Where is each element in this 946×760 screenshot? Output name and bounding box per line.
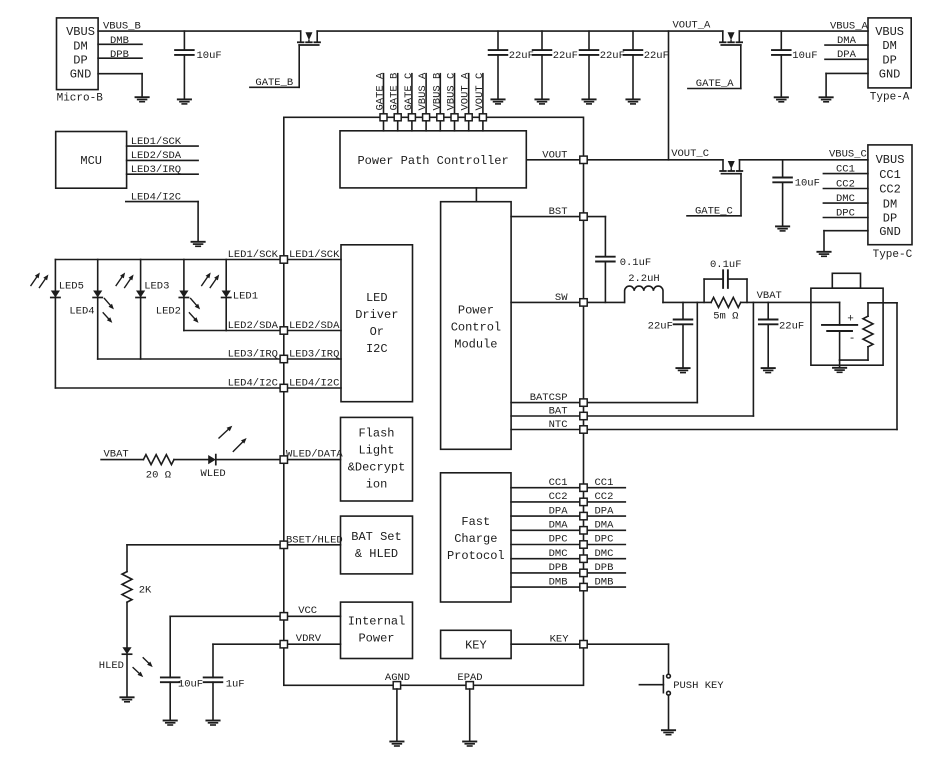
svg-text:DP: DP xyxy=(73,54,87,68)
svg-text:LED1: LED1 xyxy=(233,291,258,303)
svg-text:Protocol: Protocol xyxy=(447,549,505,563)
svg-text:MCU: MCU xyxy=(80,154,102,168)
svg-text:CC1: CC1 xyxy=(549,477,568,489)
svg-text:LED2/SDA: LED2/SDA xyxy=(228,320,279,332)
svg-text:VBAT: VBAT xyxy=(757,290,782,302)
svg-text:Charge: Charge xyxy=(454,532,497,546)
svg-text:EPAD: EPAD xyxy=(457,672,482,684)
svg-text:DMB: DMB xyxy=(595,576,614,588)
svg-text:Fast: Fast xyxy=(461,515,490,529)
svg-text:LED3/IRQ: LED3/IRQ xyxy=(289,349,339,361)
svg-text:LED2/SDA: LED2/SDA xyxy=(289,320,340,332)
svg-text:I2C: I2C xyxy=(366,342,388,356)
svg-text:22uF: 22uF xyxy=(644,50,669,62)
svg-text:VOUT_C: VOUT_C xyxy=(671,148,709,160)
svg-text:GND: GND xyxy=(70,68,92,82)
svg-text:CC1: CC1 xyxy=(879,168,901,182)
svg-text:VBUS_C: VBUS_C xyxy=(829,149,867,161)
svg-text:NTC: NTC xyxy=(549,419,568,431)
svg-text:LED1/SCK: LED1/SCK xyxy=(228,249,279,261)
svg-text:0.1uF: 0.1uF xyxy=(710,259,742,271)
svg-text:LED4/I2C: LED4/I2C xyxy=(131,191,181,203)
svg-text:10uF: 10uF xyxy=(197,50,222,62)
svg-text:5m Ω: 5m Ω xyxy=(713,311,738,323)
svg-text:BST: BST xyxy=(549,206,568,218)
svg-text:LED3: LED3 xyxy=(144,281,169,293)
svg-text:DM: DM xyxy=(882,39,896,53)
svg-text:VBUS: VBUS xyxy=(66,25,95,39)
svg-text:SW: SW xyxy=(555,292,568,304)
svg-text:DM: DM xyxy=(883,197,897,211)
svg-text:LED1/SCK: LED1/SCK xyxy=(289,249,340,261)
svg-text:-: - xyxy=(849,333,856,345)
svg-text:10uF: 10uF xyxy=(795,178,820,190)
svg-text:DPB: DPB xyxy=(549,562,568,574)
svg-text:CC2: CC2 xyxy=(836,178,855,190)
svg-text:22uF: 22uF xyxy=(648,321,673,333)
svg-text:AGND: AGND xyxy=(385,672,410,684)
svg-text:DP: DP xyxy=(882,53,896,67)
svg-text:GATE_A: GATE_A xyxy=(696,78,735,90)
svg-text:DPA: DPA xyxy=(595,505,615,517)
svg-text:+: + xyxy=(847,314,854,326)
svg-text:2.2uH: 2.2uH xyxy=(628,273,660,285)
svg-text:CC2: CC2 xyxy=(879,183,901,197)
svg-text:DPA: DPA xyxy=(837,49,857,61)
svg-text:WLED/DATA: WLED/DATA xyxy=(286,449,343,461)
svg-text:PUSH KEY: PUSH KEY xyxy=(673,680,724,692)
svg-text:WLED: WLED xyxy=(201,468,226,480)
svg-text:VOUT_C: VOUT_C xyxy=(474,73,486,111)
svg-text:&Decrypt: &Decrypt xyxy=(348,461,406,475)
svg-text:VBUS_A: VBUS_A xyxy=(417,72,429,111)
svg-text:& HLED: & HLED xyxy=(355,547,398,561)
svg-text:DPA: DPA xyxy=(549,505,569,517)
svg-text:1uF: 1uF xyxy=(226,679,245,691)
svg-text:LED: LED xyxy=(366,291,388,305)
svg-text:DMB: DMB xyxy=(549,576,568,588)
svg-text:LED1/SCK: LED1/SCK xyxy=(131,136,182,148)
svg-text:DMC: DMC xyxy=(595,548,614,560)
svg-text:Internal: Internal xyxy=(348,615,406,629)
svg-text:0.1uF: 0.1uF xyxy=(620,257,652,269)
svg-text:VBUS: VBUS xyxy=(876,153,905,167)
svg-text:DPB: DPB xyxy=(110,49,129,61)
svg-text:GATE_C: GATE_C xyxy=(695,205,733,217)
svg-text:DMA: DMA xyxy=(837,35,857,47)
svg-text:Power: Power xyxy=(358,632,394,646)
svg-text:DMC: DMC xyxy=(549,548,568,560)
svg-text:Module: Module xyxy=(454,338,497,352)
svg-text:DMA: DMA xyxy=(549,520,569,532)
svg-text:22uF: 22uF xyxy=(779,321,804,333)
svg-text:GND: GND xyxy=(879,225,901,239)
svg-text:Type-C: Type-C xyxy=(873,249,913,261)
svg-text:GATE_B: GATE_B xyxy=(389,73,401,111)
svg-text:DMB: DMB xyxy=(110,35,129,47)
svg-text:DM: DM xyxy=(73,39,87,53)
svg-text:GATE_B: GATE_B xyxy=(255,77,293,89)
svg-text:Control: Control xyxy=(451,321,501,335)
svg-text:Driver: Driver xyxy=(355,308,398,322)
svg-text:VOUT_A: VOUT_A xyxy=(460,72,472,111)
svg-text:Light: Light xyxy=(358,444,394,458)
svg-text:BATCSP: BATCSP xyxy=(530,392,568,404)
svg-text:BAT Set: BAT Set xyxy=(351,530,401,544)
svg-text:DMC: DMC xyxy=(836,193,855,205)
svg-text:Power: Power xyxy=(458,304,494,318)
svg-text:VCC: VCC xyxy=(298,605,317,617)
svg-text:2K: 2K xyxy=(139,584,152,596)
svg-text:DPC: DPC xyxy=(549,534,568,546)
svg-text:10uF: 10uF xyxy=(792,50,817,62)
svg-text:CC1: CC1 xyxy=(836,163,855,175)
svg-text:Flash: Flash xyxy=(358,427,394,441)
svg-text:VOUT: VOUT xyxy=(542,149,567,161)
svg-text:KEY: KEY xyxy=(550,633,570,645)
svg-text:DPC: DPC xyxy=(595,534,614,546)
svg-text:CC1: CC1 xyxy=(595,477,614,489)
svg-text:LED4/I2C: LED4/I2C xyxy=(228,378,278,390)
svg-text:LED2: LED2 xyxy=(156,306,181,318)
svg-text:CC2: CC2 xyxy=(595,491,614,503)
svg-text:HLED: HLED xyxy=(99,660,124,672)
svg-text:BSET/HLED: BSET/HLED xyxy=(286,535,343,547)
svg-text:CC2: CC2 xyxy=(549,491,568,503)
svg-text:VBUS: VBUS xyxy=(875,25,904,39)
svg-text:VBUS_B: VBUS_B xyxy=(103,21,141,33)
svg-text:Or: Or xyxy=(370,325,384,339)
svg-text:10uF: 10uF xyxy=(178,679,203,691)
svg-text:Power Path Controller: Power Path Controller xyxy=(357,154,508,168)
svg-text:BAT: BAT xyxy=(549,406,568,418)
svg-text:VBUS_C: VBUS_C xyxy=(446,73,458,111)
svg-text:LED3/IRQ: LED3/IRQ xyxy=(131,164,181,176)
svg-text:22uF: 22uF xyxy=(553,50,578,62)
svg-text:GATE_A: GATE_A xyxy=(375,72,387,111)
svg-text:LED4: LED4 xyxy=(69,306,94,318)
svg-text:VBUS_A: VBUS_A xyxy=(830,21,869,33)
svg-text:LED5: LED5 xyxy=(59,281,84,293)
svg-text:Micro-B: Micro-B xyxy=(57,92,104,104)
svg-text:LED3/IRQ: LED3/IRQ xyxy=(228,349,278,361)
svg-text:VBUS_B: VBUS_B xyxy=(431,73,443,111)
svg-text:DP: DP xyxy=(883,212,897,226)
svg-text:KEY: KEY xyxy=(465,639,487,653)
svg-text:22uF: 22uF xyxy=(509,50,534,62)
svg-text:GATE_C: GATE_C xyxy=(403,73,415,111)
svg-text:LED4/I2C: LED4/I2C xyxy=(289,378,339,390)
svg-text:LED2/SDA: LED2/SDA xyxy=(131,150,182,162)
svg-text:VOUT_A: VOUT_A xyxy=(673,20,712,32)
svg-text:GND: GND xyxy=(879,68,901,82)
svg-text:Type-A: Type-A xyxy=(870,92,910,104)
svg-text:DPB: DPB xyxy=(595,562,614,574)
svg-text:VBAT: VBAT xyxy=(104,449,129,461)
svg-text:22uF: 22uF xyxy=(600,50,625,62)
svg-text:DPC: DPC xyxy=(836,207,855,219)
svg-text:VDRV: VDRV xyxy=(296,633,322,645)
svg-text:DMA: DMA xyxy=(595,520,615,532)
svg-text:20 Ω: 20 Ω xyxy=(146,469,171,481)
svg-text:ion: ion xyxy=(366,478,388,492)
